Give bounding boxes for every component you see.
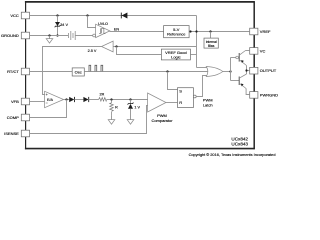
wire between diodes: [75, 99, 84, 101]
pin VFB: [11, 98, 29, 105]
latch output bubble: [193, 95, 196, 98]
label 34 V: [60, 23, 68, 27]
diode D1 on rail: [121, 13, 127, 19]
svg-text:Comparator: Comparator: [151, 118, 173, 123]
ground below resistor R: [108, 115, 115, 124]
wire VC connection: [246, 50, 250, 52]
pin VREF: [250, 28, 271, 35]
svg-text:2R: 2R: [100, 93, 105, 97]
svg-text:ISENSE: ISENSE: [4, 131, 19, 136]
wire RT/CT to Osc: [30, 71, 73, 73]
svg-text:UCx843: UCx843: [231, 141, 248, 146]
op-amp PWM comparator: [148, 93, 166, 112]
wire 2.5V output to E/A + input: [43, 47, 102, 95]
wire GROUND to battery: [30, 35, 69, 37]
wire VFB to E/A - input: [30, 101, 45, 103]
svg-text:R: R: [115, 106, 118, 110]
svg-text:E/A: E/A: [47, 98, 53, 102]
svg-text:PWRGND: PWRGND: [260, 92, 278, 97]
svg-text:Latch: Latch: [203, 102, 213, 107]
wire tap to VREF Good Logic input: [117, 47, 162, 55]
node E/A output junction: [65, 98, 67, 100]
node ground-symbol junction: [48, 34, 50, 36]
wire battery to UVLO input: [75, 35, 93, 37]
wire rail to UVLO + input: [88, 16, 96, 28]
latch PWM Latch: [178, 88, 194, 108]
zener diode 34 V: [55, 16, 61, 36]
pin GROUND: [1, 32, 29, 39]
node totem-pole base bus: [229, 70, 231, 72]
wire comparator to latch R: [166, 102, 178, 104]
svg-text:Osc: Osc: [75, 70, 82, 75]
svg-text:VC: VC: [260, 48, 266, 53]
pin PWRGND: [250, 92, 278, 99]
diode D3: [83, 97, 88, 102]
op-amp E/A error amplifier: [45, 91, 64, 107]
wire COMP feedback: [30, 100, 67, 118]
svg-text:Bias: Bias: [208, 44, 215, 48]
outer block boundary: [25, 1, 255, 149]
label UVLO: [98, 22, 108, 26]
transistor Q1 upper totem pole: [231, 51, 247, 66]
label UCx842 UCx843: [231, 136, 248, 146]
block Osc: [72, 68, 84, 76]
svg-text:COMP: COMP: [7, 115, 19, 120]
label PWM Latch: [203, 98, 213, 108]
wire ISENSE to PWM comparator: [30, 106, 148, 134]
block 5-V Reference: [164, 26, 190, 38]
ground below zener: [127, 120, 134, 125]
label 2.5 V: [88, 49, 97, 53]
svg-text:Copyright © 2016, Texas Instru: Copyright © 2016, Texas Instruments Inco…: [189, 152, 276, 157]
svg-text:2.5 V: 2.5 V: [88, 49, 97, 53]
svg-text:R: R: [179, 100, 182, 105]
wire OUTPUT node: [245, 66, 249, 75]
wire EN to 5-V Reference: [110, 31, 164, 33]
wire base bus vertical: [230, 58, 232, 81]
node clock to latch S branch: [166, 70, 168, 72]
svg-text:VFB: VFB: [11, 99, 19, 104]
node zener junction: [129, 98, 131, 100]
svg-text:GROUND: GROUND: [1, 33, 19, 38]
clock waveform pulses: [89, 65, 103, 71]
svg-text:Logic: Logic: [171, 55, 181, 60]
node zener-ground junction: [56, 34, 58, 36]
node 2.5V feed tap: [115, 45, 117, 47]
svg-text:Reference: Reference: [167, 32, 186, 37]
svg-text:S: S: [179, 88, 182, 93]
wire clock to latch S input: [168, 72, 178, 90]
wire reference feed to OR gate input: [197, 67, 210, 69]
wire VCC top rail: [30, 15, 197, 17]
ground symbol at GROUND rail: [46, 36, 53, 44]
wire diode to 2R: [89, 99, 99, 101]
pin ISENSE: [4, 130, 29, 137]
label EN: [114, 27, 120, 31]
svg-text:UVLO: UVLO: [98, 22, 108, 26]
wire PWRGND connection: [246, 89, 250, 95]
wire VREF output line: [189, 31, 250, 33]
transistor Q2 lower totem pole: [231, 74, 247, 89]
OR gate U2: [206, 67, 223, 77]
label PWM Comparator: [151, 113, 173, 123]
svg-text:EN: EN: [114, 27, 120, 31]
block Internal Bias: [204, 38, 218, 48]
pin OUTPUT: [250, 67, 277, 74]
wire VREF Good Logic output: [190, 54, 196, 56]
block VREF Good Logic: [161, 49, 190, 60]
svg-text:VCC: VCC: [10, 13, 19, 18]
wire reference feed to 2.5V buffer input: [113, 46, 196, 48]
copyright note: [189, 152, 276, 157]
wire tap to Internal Bias: [210, 32, 212, 39]
node rail-VREF junction: [195, 30, 197, 32]
node divider junction: [110, 98, 112, 100]
svg-text:VREF: VREF: [260, 29, 271, 34]
wire OR output to totem pole: [223, 71, 231, 73]
node rail-zener junction: [56, 14, 58, 16]
svg-text:1 V: 1 V: [134, 106, 140, 110]
wire E/A output: [64, 99, 70, 101]
wire rail down / reference feed vertical: [196, 16, 198, 68]
svg-text:34 V: 34 V: [60, 23, 68, 27]
node reference output: [189, 30, 191, 32]
UVLO inverting input bubble: [93, 34, 96, 37]
resistor R to ground: [110, 100, 118, 116]
wire 2R to comparator: [107, 99, 148, 101]
node internal-bias tap: [209, 30, 211, 32]
resistor 2R: [99, 93, 107, 102]
pin COMP: [7, 114, 30, 121]
op-amp UVLO comparator: [96, 24, 110, 37]
op-amp 2.5V reference buffer: [102, 41, 114, 52]
node rail-UVLO junction: [86, 14, 88, 16]
zener diode 1 V: [128, 100, 141, 120]
diode D2: [69, 97, 74, 102]
pin VC: [250, 48, 266, 55]
svg-text:RT/CT: RT/CT: [7, 69, 19, 74]
battery symbol UVLO threshold: [69, 31, 76, 40]
pin RT/CT: [7, 68, 29, 75]
svg-text:OUTPUT: OUTPUT: [260, 68, 277, 73]
pin VCC: [10, 12, 29, 19]
wire latch output to OR gate: [196, 76, 209, 97]
wire clock line to OR gate: [84, 71, 209, 73]
